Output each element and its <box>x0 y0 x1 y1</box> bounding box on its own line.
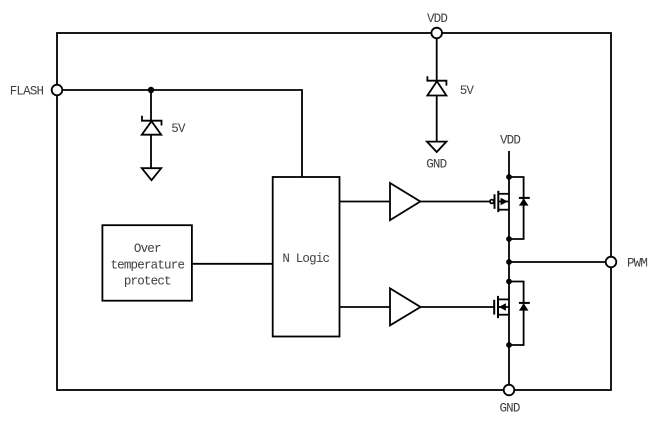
buffer U1 (top driver) <box>390 183 420 220</box>
wire buffer U1 to Q1 gate <box>420 201 490 203</box>
node A (junction on FLASH line) <box>148 87 154 93</box>
wire FLASH to N Logic (horizontal then down) <box>62 90 302 177</box>
node: Q2 drain junction <box>506 279 512 285</box>
body diode D4 branch (Q2) <box>509 282 530 346</box>
transistor Q2 (NMOS) <box>494 296 509 318</box>
svg-text:VDD: VDD <box>500 134 520 148</box>
body diode D3 branch (Q1) <box>509 177 530 239</box>
buffer U2 (bottom driver) <box>390 288 421 325</box>
svg-text:N Logic: N Logic <box>282 252 329 266</box>
N Logic block <box>273 177 340 337</box>
svg-text:5V: 5V <box>460 84 475 98</box>
svg-text:FLASH: FLASH <box>10 85 44 99</box>
svg-text:GND: GND <box>426 158 446 172</box>
wire output to PWM terminal <box>509 261 606 263</box>
wire zener D1 top <box>150 90 152 121</box>
wire zener D2 top <box>436 38 438 80</box>
zener diode D1 (5V clamp on FLASH) <box>142 116 162 168</box>
svg-text:PWM: PWM <box>627 256 647 270</box>
wire buffer U2 to Q2 gate <box>421 306 495 308</box>
terminal FLASH <box>52 85 63 96</box>
svg-text:temperature: temperature <box>110 258 184 272</box>
wire N Logic to buffer U1 <box>340 201 391 203</box>
chip outline <box>57 33 611 390</box>
svg-text:VDD: VDD <box>427 12 447 26</box>
terminal GND (bottom) <box>504 385 515 396</box>
node: output junction <box>506 259 512 265</box>
svg-text:5V: 5V <box>171 122 186 136</box>
terminal PWM <box>606 257 617 268</box>
wire output to Q2 <box>508 262 510 282</box>
node: Q2 source junction <box>506 342 512 348</box>
wire Q2 main vertical <box>508 282 510 385</box>
wire Q1 main vertical (source-drain rail) <box>508 177 510 262</box>
zener diode D2 (5V clamp on VDD) <box>427 76 446 141</box>
terminal VDD (top) <box>431 28 442 39</box>
wire N Logic to buffer U2 <box>340 306 391 308</box>
svg-text:Over: Over <box>134 242 161 256</box>
svg-text:protect: protect <box>124 274 171 288</box>
node: Q1 bottom junction <box>506 236 512 242</box>
ground (below D2) <box>427 142 446 152</box>
wire VDD to Q1 <box>508 151 510 177</box>
node: Q1 top junction <box>506 174 512 180</box>
ground (below D1) <box>142 168 161 180</box>
transistor Q1 (PMOS) <box>490 191 509 212</box>
svg-text:GND: GND <box>499 402 519 416</box>
wire OTP to N Logic <box>192 263 273 265</box>
over temperature protect block <box>102 225 191 301</box>
